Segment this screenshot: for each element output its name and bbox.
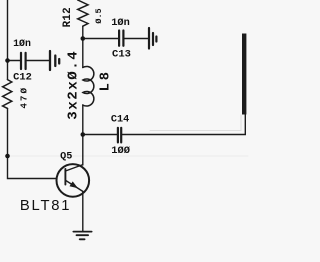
wire emitter down	[82, 191, 84, 230]
wire C12 left	[8, 60, 20, 62]
ground (right of C12)	[50, 51, 59, 70]
ground (right of C13)	[149, 28, 156, 49]
wire left rail lower	[8, 108, 57, 178]
capacitor C14	[118, 128, 121, 143]
wire C13 right	[125, 38, 148, 40]
antenna stub	[242, 34, 246, 115]
node dot base rail	[5, 154, 10, 159]
resistor R12	[78, 0, 88, 26]
svg-text:47Ø: 47Ø	[18, 86, 29, 109]
inductor L8	[83, 66, 94, 106]
wire top to C13	[83, 38, 118, 40]
wire node2 to C14	[83, 134, 117, 136]
node dot C12 tap	[5, 58, 10, 63]
svg-text:3x2xØ.4: 3x2xØ.4	[65, 50, 81, 120]
svg-text:1Øn: 1Øn	[111, 17, 130, 29]
wire L8 to node2	[82, 105, 84, 135]
capacitor C12	[21, 53, 26, 69]
svg-text:C13: C13	[112, 49, 131, 61]
ground (emitter)	[73, 232, 91, 240]
resistor 470	[3, 80, 12, 109]
transistor Q5 base bar	[64, 169, 66, 185]
transistor Q5 emitter arrow	[70, 181, 79, 188]
wire C14 to antenna	[122, 115, 245, 135]
svg-text:1ØØ: 1ØØ	[111, 145, 130, 157]
svg-text:R12: R12	[62, 7, 74, 27]
ghost scan line 2	[150, 115, 241, 131]
node dot R12/C13	[81, 36, 86, 41]
svg-text:Ø.5: Ø.5	[94, 8, 104, 23]
transistor Q5 circle	[57, 164, 90, 197]
capacitor C13	[119, 31, 123, 46]
transistor Q5 collector diagonal	[66, 165, 83, 171]
svg-text:C12: C12	[13, 71, 32, 83]
svg-text:C14: C14	[111, 115, 129, 126]
wire collector	[82, 135, 84, 166]
transistor Q5 emitter diagonal	[66, 181, 83, 192]
svg-text:1Øn: 1Øn	[13, 38, 31, 49]
ghost scan line	[9, 155, 248, 157]
svg-text:BLT81: BLT81	[20, 198, 72, 214]
svg-text:L8: L8	[98, 69, 113, 91]
node dot L8/C14	[81, 132, 86, 137]
wire node to L8	[82, 39, 84, 68]
wire left rail top	[7, 0, 9, 80]
wire C12 right	[27, 60, 49, 62]
svg-text:Q5: Q5	[60, 152, 72, 163]
wire R12 to node	[82, 26, 84, 38]
